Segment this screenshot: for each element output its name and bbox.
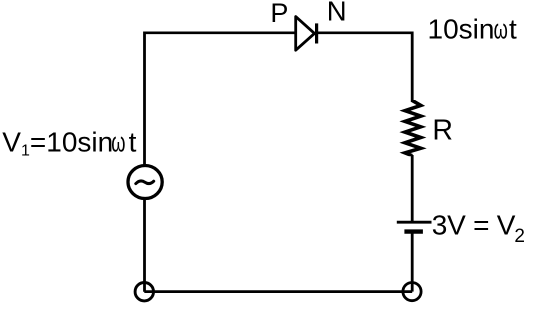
svg-text:10sin: 10sin <box>428 14 495 45</box>
wire top-left horizontal <box>145 31 296 34</box>
svg-text:1: 1 <box>21 143 30 160</box>
AC source V1 sine tilde <box>136 181 154 184</box>
wire right vertical lower <box>411 232 414 292</box>
battery V2 short plate <box>404 229 423 233</box>
svg-text:ω: ω <box>494 15 508 46</box>
svg-text:R: R <box>432 114 453 146</box>
wire left vertical upper <box>143 32 146 167</box>
battery V2 long plate <box>397 221 432 224</box>
AC source V1 circle <box>128 166 162 199</box>
wire top-right horizontal <box>317 31 414 34</box>
svg-text:3V = V: 3V = V <box>432 209 516 240</box>
diode D1 triangle (anode) <box>296 17 315 51</box>
terminal bottom-right <box>403 283 421 301</box>
svg-text:N: N <box>327 0 347 27</box>
wire right vertical upper <box>411 32 414 103</box>
terminal bottom-left <box>135 283 153 301</box>
wire left vertical lower <box>143 199 146 292</box>
svg-text:=10sin: =10sin <box>30 127 113 158</box>
svg-text:P: P <box>270 0 288 28</box>
diode D1 cathode bar <box>315 23 318 43</box>
svg-text:ω: ω <box>111 128 125 159</box>
wire bottom horizontal <box>144 290 412 293</box>
svg-text:2: 2 <box>514 226 525 247</box>
svg-text:t: t <box>509 14 517 45</box>
wire right vertical middle <box>411 155 414 222</box>
svg-text:V: V <box>2 127 21 158</box>
svg-text:t: t <box>129 127 137 158</box>
